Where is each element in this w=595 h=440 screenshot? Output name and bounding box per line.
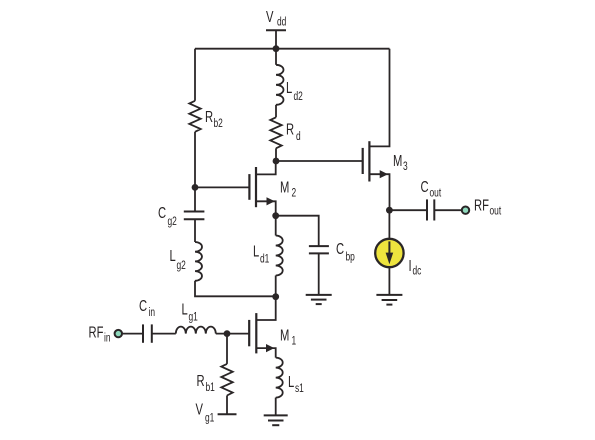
wire left rail upper (194, 49, 196, 101)
current source Idc (375, 239, 403, 267)
svg-text:I: I (409, 256, 412, 275)
wire Cin to Lg1 (152, 333, 176, 335)
svg-text:b2: b2 (214, 118, 224, 131)
transistor M1 (249, 297, 276, 358)
label M2 (280, 177, 296, 200)
inductor Lg1 (176, 327, 216, 334)
svg-text:L: L (182, 300, 188, 319)
wire Idc to ground (388, 267, 390, 295)
svg-text:g2: g2 (168, 216, 178, 229)
resistor Rd (270, 117, 281, 148)
svg-text:dd: dd (277, 16, 287, 29)
wire top rail (195, 48, 390, 50)
label Cin (139, 296, 155, 319)
capacitor Cin (143, 324, 152, 342)
wire gate node to M2 gate (195, 186, 249, 188)
label Ls1 (288, 372, 304, 396)
label Rd (286, 119, 301, 143)
label M1 (280, 325, 296, 348)
capacitor Cout (427, 199, 434, 220)
wire Lg2 bottom to M1 drain node (195, 281, 276, 297)
svg-text:in: in (148, 307, 155, 320)
svg-text:RF: RF (89, 323, 104, 342)
label M3 (393, 151, 408, 174)
svg-text:M: M (280, 177, 289, 196)
supply bar Vg1 (218, 413, 237, 415)
resistor Rb1 (221, 364, 232, 396)
svg-text:V: V (266, 7, 274, 26)
node M2 gate junction (192, 184, 199, 191)
wire RFin to Cin (122, 333, 143, 335)
terminal RFin (115, 330, 122, 337)
label Lg1 (182, 300, 199, 324)
svg-text:1: 1 (292, 335, 297, 348)
wire Cg2 to Lg2 (194, 220, 196, 242)
label Ld2 (286, 78, 303, 104)
ground (Cbp) (306, 295, 332, 304)
label Ld1 (253, 241, 270, 266)
wire source node to Cout (389, 209, 426, 211)
Vdd supply bar (266, 30, 286, 48)
svg-text:in: in (104, 332, 111, 345)
node M1 gate junction (224, 330, 231, 337)
label Cbp (336, 239, 355, 264)
svg-text:g1: g1 (189, 311, 199, 324)
wire Cbp to ground (318, 254, 320, 295)
resistor Rb2 (189, 101, 200, 132)
svg-text:L: L (170, 246, 176, 265)
svg-text:g2: g2 (177, 260, 187, 273)
svg-text:out: out (490, 205, 502, 218)
ground (Idc) (376, 295, 402, 305)
svg-text:L: L (286, 78, 292, 97)
label Cg2 (158, 203, 177, 229)
node Vdd junction (273, 45, 280, 52)
svg-text:3: 3 (403, 161, 408, 174)
label Rb2 (205, 107, 223, 131)
svg-text:R: R (286, 119, 294, 138)
label RFout (474, 195, 501, 218)
wire Rb1 to Vg1 (226, 396, 228, 415)
node M3 source junction (386, 207, 393, 214)
node M2 drain junction (273, 158, 280, 165)
label Cout (421, 177, 442, 200)
node Ld1 bottom junction (272, 293, 279, 300)
svg-text:out: out (429, 187, 441, 200)
svg-text:d2: d2 (294, 91, 304, 104)
label Lg2 (170, 246, 187, 273)
label RFin (89, 323, 111, 345)
svg-text:RF: RF (474, 195, 489, 214)
wire Lg1 to gate node (216, 333, 249, 335)
svg-text:M: M (280, 325, 289, 344)
label Idc (409, 256, 422, 278)
svg-text:dc: dc (413, 265, 422, 278)
svg-text:g1: g1 (205, 412, 215, 425)
svg-text:d1: d1 (260, 253, 270, 266)
svg-text:bp: bp (346, 251, 356, 264)
inductor Ld2 (276, 49, 284, 105)
wire Cout to RFout terminal (435, 209, 461, 211)
inductor Lg2 (195, 242, 202, 281)
svg-text:C: C (139, 296, 147, 315)
wire gate node down to Cg2 (194, 187, 196, 211)
svg-text:R: R (205, 107, 213, 126)
label Vg1 (196, 399, 215, 425)
transistor M2 (249, 161, 275, 216)
capacitor Cbp (309, 246, 329, 253)
label Rb1 (197, 371, 216, 395)
svg-text:d: d (296, 131, 301, 144)
svg-text:L: L (288, 372, 294, 391)
label Vdd (266, 7, 287, 29)
svg-text:L: L (253, 241, 259, 260)
svg-text:C: C (158, 203, 166, 222)
transistor M3 (363, 49, 390, 211)
svg-text:s1: s1 (295, 383, 304, 396)
inductor Ld1 (276, 216, 283, 297)
wire Rd to drain node (275, 148, 277, 161)
ground (Ls1) (264, 415, 288, 425)
inductor Ls1 (276, 358, 283, 416)
wire Rb2 to gate node (194, 132, 196, 188)
wire Ld2 to Rd (275, 105, 277, 118)
svg-text:M: M (393, 151, 402, 170)
capacitor Cg2 (184, 212, 205, 220)
svg-text:b1: b1 (206, 382, 216, 395)
node M2 source junction (272, 212, 279, 219)
svg-text:V: V (196, 399, 204, 418)
terminal RFout (462, 207, 469, 214)
svg-text:2: 2 (292, 187, 297, 200)
svg-text:R: R (197, 371, 205, 390)
wire source node to Idc (388, 210, 390, 239)
svg-text:C: C (421, 177, 429, 196)
wire source node to Cbp (276, 216, 319, 246)
wire drain node to M3 gate (276, 160, 363, 162)
wire gate node to Rb1 (226, 334, 228, 364)
svg-text:C: C (336, 239, 344, 258)
